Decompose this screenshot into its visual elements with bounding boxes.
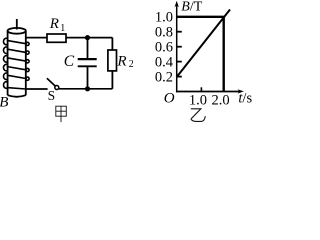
svg-text:S: S bbox=[48, 88, 56, 103]
svg-text:1.0: 1.0 bbox=[189, 92, 207, 108]
svg-text:0.8: 0.8 bbox=[155, 25, 173, 41]
svg-text:0.6: 0.6 bbox=[155, 40, 173, 56]
svg-text:1: 1 bbox=[60, 23, 65, 34]
svg-text:0.2: 0.2 bbox=[155, 69, 173, 85]
svg-text:2.0: 2.0 bbox=[211, 92, 229, 108]
svg-text:t/s: t/s bbox=[238, 91, 252, 107]
svg-text:R: R bbox=[49, 16, 59, 32]
svg-text:C: C bbox=[64, 53, 75, 70]
svg-text:B: B bbox=[0, 95, 8, 111]
svg-text:1.0: 1.0 bbox=[155, 10, 173, 26]
svg-text:R: R bbox=[116, 53, 126, 69]
svg-text:B/T: B/T bbox=[181, 0, 202, 15]
svg-text:0.4: 0.4 bbox=[155, 54, 174, 70]
svg-text:O: O bbox=[164, 90, 175, 106]
svg-text:2: 2 bbox=[129, 59, 134, 70]
